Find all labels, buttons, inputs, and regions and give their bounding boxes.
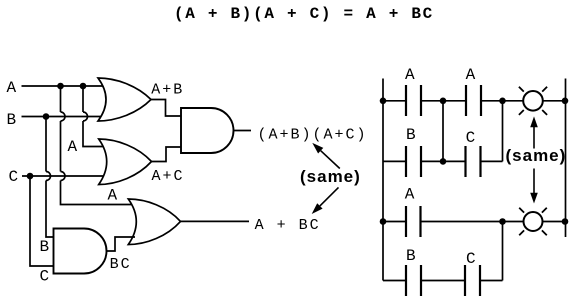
svg-text:C: C (466, 129, 476, 147)
wire AND2 output to OR3 lower input (107, 237, 136, 251)
arrow up to lamp L1 (533, 126, 535, 149)
svg-text:C: C (40, 268, 50, 286)
arrow to (A+B)(A+C) (321, 151, 340, 169)
svg-text:A: A (405, 66, 415, 84)
svg-text:C: C (466, 250, 476, 268)
svg-text:B: B (7, 111, 17, 129)
node rung1 lamp junction (499, 98, 506, 105)
wire OR2 output to AND1 lower input (152, 147, 183, 162)
contact C (branch2) (465, 265, 480, 296)
wire A tap2 to OR2 upper input (hop over B wire) (83, 86, 105, 147)
wire branch drop from rung1 (442, 101, 444, 162)
branch rung 1 wire segments (383, 160, 503, 162)
svg-text:(same): (same) (300, 167, 361, 186)
node A tap 2 (80, 83, 87, 90)
lamp L2 rays (519, 208, 547, 236)
svg-text:A+B: A+B (151, 82, 184, 99)
node rung2 left rail (380, 218, 387, 225)
wire OR1 output to AND1 upper input (151, 100, 182, 117)
svg-text:A: A (7, 79, 17, 97)
svg-text:BC: BC (110, 256, 132, 273)
wire branch2 return up (502, 222, 504, 281)
lamp L2 (524, 212, 543, 231)
wire A input (22, 85, 105, 87)
or-gate OR2 (A+C) (99, 139, 152, 185)
svg-text:A: A (68, 138, 78, 156)
and-gate AND2 (BC) (54, 229, 107, 274)
ladder right rail (565, 79, 567, 238)
or-gate OR3 (A+BC) (128, 199, 180, 245)
node rung1 left rail (380, 98, 387, 105)
node A tap 1 (57, 83, 64, 90)
svg-text:(A + B)(A + C) = A + BC: (A + B)(A + C) = A + BC (174, 5, 434, 23)
svg-text:C: C (9, 168, 19, 186)
wire hop A2-over-B (83, 112, 88, 121)
rung 1 wire segments (383, 100, 566, 102)
wire branch1 return up (502, 101, 504, 162)
contact B (branch1) (406, 146, 421, 177)
svg-text:A: A (405, 186, 415, 204)
svg-text:(A+B)(A+C): (A+B)(A+C) (258, 127, 368, 144)
wire OR3 output (181, 220, 250, 222)
svg-text:A: A (108, 187, 118, 205)
node rung2 lamp junction (499, 218, 506, 225)
svg-text:(same): (same) (506, 146, 567, 165)
branch rung 2 wire segments (383, 280, 503, 282)
node rung2 right rail (562, 218, 569, 225)
contact A (rung1 second) (466, 85, 481, 116)
node C tap (27, 173, 34, 180)
lamp L1 rays (519, 87, 547, 115)
wire B to AND2 upper input (hop over C wire) (46, 117, 56, 238)
contact B (branch2) (406, 265, 421, 296)
svg-text:A: A (466, 66, 476, 84)
wire hop B-over-C (46, 172, 51, 181)
svg-text:A+C: A+C (152, 168, 185, 185)
wire C input (22, 175, 104, 177)
or-gate OR1 (A+B) (98, 78, 151, 121)
rung 2 wire segments (383, 221, 566, 223)
contact C (branch1) (466, 146, 481, 177)
node B tap (43, 113, 50, 120)
node branch1 junction (440, 158, 447, 165)
svg-text:B: B (40, 238, 50, 256)
wire A tap1 to OR3 upper input (hops over B and C wires) (61, 86, 133, 205)
svg-text:B: B (406, 126, 416, 144)
svg-text:B: B (406, 247, 416, 265)
wire hop A1-over-C (61, 172, 66, 181)
arrow down to lamp L2 (533, 169, 535, 194)
wire AND1 output (234, 130, 252, 132)
lamp L1 (523, 91, 543, 111)
node rung1 branch junction (440, 98, 447, 105)
arrow to A + BC (320, 187, 339, 206)
svg-text:A + BC: A + BC (255, 217, 321, 234)
contact A (rung2) (406, 206, 421, 237)
node rung1 right rail (562, 98, 569, 105)
wire B input (22, 116, 105, 118)
and-gate AND1 (181, 108, 234, 153)
wire hop A1-over-B (61, 112, 66, 121)
ladder left rail (382, 79, 384, 281)
contact A (rung1 first) (406, 85, 421, 116)
wire C to AND2 lower input (30, 176, 56, 266)
